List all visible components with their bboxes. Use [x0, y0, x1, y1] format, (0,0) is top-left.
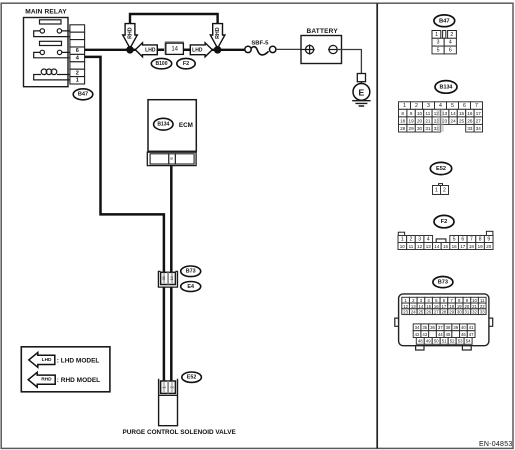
- RHD model arrow marker (right): [210, 24, 225, 49]
- svg-text:20: 20: [465, 304, 470, 309]
- pinout oval B73: [433, 277, 453, 288]
- svg-text:25: 25: [419, 310, 424, 315]
- wire ECM pin down to inline connector: [170, 166, 173, 272]
- svg-text:17: 17: [442, 304, 447, 309]
- relay contact points switch 1: [40, 29, 62, 33]
- svg-text:27: 27: [476, 119, 482, 124]
- svg-text:20: 20: [417, 119, 423, 124]
- svg-text:1: 1: [401, 236, 404, 242]
- svg-text:3: 3: [418, 236, 421, 242]
- svg-text:BATTERY: BATTERY: [307, 28, 339, 35]
- svg-text:26: 26: [426, 310, 431, 315]
- svg-text:B134: B134: [440, 84, 453, 90]
- svg-text:8: 8: [479, 236, 482, 242]
- svg-text:9: 9: [410, 111, 413, 116]
- svg-text:54: 54: [466, 339, 471, 344]
- svg-text:3: 3: [427, 103, 430, 109]
- connector oval B47 (main relay): [73, 89, 93, 100]
- svg-text:18: 18: [400, 119, 406, 124]
- pinout oval B47: [434, 15, 455, 27]
- svg-text:PURGE CONTROL SOLENOID VALVE: PURGE CONTROL SOLENOID VALVE: [122, 429, 236, 436]
- svg-text:: RHD MODEL: : RHD MODEL: [57, 377, 100, 384]
- svg-text:25: 25: [459, 119, 465, 124]
- svg-text:B100: B100: [156, 61, 168, 67]
- svg-text:9: 9: [487, 236, 490, 242]
- battery negative terminal: [328, 45, 338, 53]
- svg-text:2: 2: [410, 236, 413, 242]
- svg-text:18: 18: [449, 304, 454, 309]
- pinout oval F2: [434, 215, 454, 227]
- inline connector B73/E4 shell: [158, 271, 177, 287]
- svg-text:LHD: LHD: [42, 357, 52, 363]
- svg-text:43: 43: [422, 332, 427, 337]
- relay coil: [37, 69, 70, 75]
- svg-text:48: 48: [418, 339, 423, 344]
- svg-text:10: 10: [400, 244, 406, 249]
- svg-text:19: 19: [409, 119, 415, 124]
- inline connector B73/E4 body: [161, 272, 176, 284]
- svg-text:32: 32: [472, 310, 477, 315]
- svg-text:5: 5: [451, 103, 454, 109]
- wire main relay pin 6 to fuse (power feed): [85, 49, 245, 51]
- svg-text:5: 5: [437, 47, 440, 53]
- svg-text:1: 1: [403, 103, 406, 109]
- svg-text:22: 22: [480, 304, 485, 309]
- svg-text:14: 14: [171, 47, 178, 53]
- svg-text:26: 26: [467, 119, 473, 124]
- svg-text:2: 2: [450, 32, 453, 38]
- connector oval B100: [151, 58, 171, 68]
- wire fuse box 14 to LHD arrow: [183, 49, 191, 51]
- svg-text:ECM: ECM: [179, 122, 193, 129]
- svg-text:31: 31: [465, 310, 470, 315]
- svg-text:RHD: RHD: [41, 377, 52, 383]
- svg-text:2: 2: [443, 187, 446, 193]
- junction node (left): [126, 46, 134, 54]
- svg-text:34: 34: [476, 126, 482, 131]
- svg-text:41: 41: [469, 325, 474, 330]
- svg-text:49: 49: [426, 339, 431, 344]
- svg-text:23: 23: [403, 310, 408, 315]
- pinout oval B134: [435, 81, 457, 94]
- svg-text:33: 33: [480, 310, 485, 315]
- fuse No.14 box: [165, 42, 184, 54]
- connector oval E4: [181, 282, 201, 292]
- svg-text:24: 24: [451, 119, 457, 124]
- svg-text:RHD: RHD: [128, 27, 134, 39]
- fusible link SBF-5 symbol: [245, 46, 276, 55]
- svg-text:1: 1: [76, 78, 79, 84]
- svg-text:53: 53: [458, 339, 463, 344]
- legend box: [21, 347, 110, 392]
- svg-text:38: 38: [446, 325, 451, 330]
- svg-text:47: 47: [469, 332, 474, 337]
- svg-text:MAIN RELAY: MAIN RELAY: [25, 9, 67, 16]
- svg-text:19: 19: [478, 244, 484, 249]
- svg-text:15: 15: [426, 304, 431, 309]
- svg-text:B73: B73: [438, 280, 448, 286]
- ground point E circle: [353, 82, 370, 101]
- svg-text:2: 2: [76, 70, 79, 76]
- pinout grid E52: [433, 184, 449, 195]
- svg-text:19: 19: [457, 304, 462, 309]
- wire LHD arrow to fuse box 14: [157, 49, 166, 51]
- battery label: [307, 28, 339, 35]
- svg-text:21: 21: [425, 119, 431, 124]
- wire inline connector down to solenoid (left): [163, 287, 166, 381]
- ECM connector pin strip: [147, 152, 196, 165]
- figure number EN-04853: [479, 441, 513, 448]
- relay contact bar 2: [40, 41, 62, 45]
- svg-text:12: 12: [403, 304, 408, 309]
- svg-text:35: 35: [422, 325, 427, 330]
- svg-text:E52: E52: [187, 375, 197, 381]
- svg-text:11: 11: [480, 298, 485, 303]
- svg-text:16: 16: [452, 244, 458, 249]
- svg-text:50: 50: [434, 339, 439, 344]
- solenoid valve body: [159, 394, 178, 396]
- svg-text:20: 20: [486, 244, 492, 249]
- svg-text:6: 6: [463, 103, 466, 109]
- wire switch 2 to pins: [34, 52, 70, 57]
- svg-text:52: 52: [450, 339, 455, 344]
- svg-text:28: 28: [442, 310, 447, 315]
- svg-text:28: 28: [400, 126, 406, 131]
- ground connector block: [357, 74, 365, 82]
- svg-text:36: 36: [430, 325, 435, 330]
- connector oval B134 (ECM): [154, 118, 173, 130]
- svg-text:17: 17: [476, 111, 482, 116]
- relay contact bar 1: [40, 20, 62, 24]
- svg-text:24: 24: [411, 310, 416, 315]
- legend RHD arrow: [28, 372, 55, 387]
- ECM pin number: [169, 157, 174, 160]
- svg-text:F2: F2: [183, 61, 189, 67]
- svg-text:44: 44: [438, 332, 443, 337]
- svg-text:6: 6: [76, 48, 79, 54]
- svg-text:B47: B47: [439, 18, 450, 24]
- svg-text:45: 45: [446, 332, 451, 337]
- wire RHD bypass bridge: [130, 14, 218, 25]
- svg-text:: LHD MODEL: : LHD MODEL: [57, 357, 100, 364]
- svg-text:15: 15: [443, 244, 449, 249]
- svg-text:35: 35: [162, 276, 166, 280]
- svg-text:F2: F2: [441, 219, 448, 225]
- svg-text:30: 30: [457, 310, 462, 315]
- svg-text:51: 51: [442, 339, 447, 344]
- junction node (right): [214, 46, 222, 54]
- svg-text:18: 18: [469, 244, 475, 249]
- svg-text:29: 29: [409, 126, 415, 131]
- legend RHD text: [57, 377, 100, 384]
- svg-text:31: 31: [425, 126, 431, 131]
- svg-text:B134: B134: [157, 122, 169, 128]
- svg-text:RHD: RHD: [215, 27, 221, 39]
- svg-text:11: 11: [409, 244, 414, 249]
- svg-text:15: 15: [459, 111, 465, 116]
- main relay label: [25, 9, 67, 16]
- ground symbol: [352, 101, 370, 106]
- svg-text:11: 11: [426, 111, 431, 116]
- svg-text:13: 13: [411, 304, 416, 309]
- wire coil to pin 1: [34, 75, 70, 80]
- pinout grid B73 lower rows: [413, 324, 475, 344]
- svg-text:E: E: [359, 88, 365, 98]
- pinout grid B73 upper rows: [402, 297, 486, 314]
- svg-text:4: 4: [449, 40, 452, 46]
- svg-text:4: 4: [439, 103, 442, 109]
- svg-text:30: 30: [417, 126, 423, 131]
- wire inline connector down to solenoid (right): [170, 287, 173, 381]
- svg-text:LHD: LHD: [145, 47, 156, 53]
- svg-text:1: 1: [435, 32, 438, 38]
- svg-text:E4: E4: [187, 284, 194, 290]
- svg-text:6: 6: [449, 47, 452, 53]
- svg-text:14: 14: [434, 244, 440, 249]
- svg-text:13: 13: [426, 244, 432, 249]
- panel divider: [376, 3, 378, 448]
- pinout oval E52: [430, 162, 451, 174]
- svg-text:7: 7: [475, 103, 478, 109]
- solenoid connector pin numbers 1 2: [162, 385, 175, 388]
- svg-text:1: 1: [435, 187, 438, 193]
- LHD model arrow marker (left, points left): [135, 43, 157, 57]
- svg-text:8: 8: [401, 111, 404, 116]
- relay K1 MAIN RELAY box: [24, 18, 69, 87]
- relay contact points switch 2: [40, 50, 62, 54]
- pinout grid F2: [398, 231, 493, 249]
- svg-text:3: 3: [437, 40, 440, 46]
- svg-text:21: 21: [472, 304, 477, 309]
- svg-text:E52: E52: [436, 166, 446, 172]
- purge control solenoid valve label: [122, 429, 236, 436]
- ECM box: [148, 100, 196, 152]
- wire fuse to battery: [276, 48, 301, 50]
- legend LHD arrow: [29, 353, 55, 368]
- LHD model arrow marker (right, points right): [190, 43, 212, 57]
- RHD model arrow marker (left): [123, 24, 138, 49]
- legend LHD text: [57, 357, 100, 364]
- svg-text:27: 27: [434, 310, 439, 315]
- inline connector pin numbers: [162, 276, 174, 280]
- svg-text:39: 39: [453, 325, 458, 330]
- svg-text:29: 29: [449, 310, 454, 315]
- svg-text:SBF-5: SBF-5: [251, 40, 269, 46]
- svg-text:16: 16: [467, 111, 473, 116]
- svg-text:14: 14: [419, 304, 424, 309]
- svg-text:12: 12: [417, 244, 423, 249]
- wire battery negative to ground E: [337, 50, 361, 74]
- wire main relay pin 4 down to inline connector: [85, 57, 164, 272]
- svg-text:5: 5: [453, 236, 456, 242]
- svg-text:33: 33: [467, 126, 473, 131]
- battery box: [301, 36, 342, 64]
- pinout grid B47: [432, 31, 456, 54]
- svg-text:6: 6: [461, 236, 464, 242]
- svg-text:14: 14: [451, 111, 457, 116]
- relay connector pin strip B47 pins 6 4 2 1: [70, 25, 85, 84]
- svg-text:LHD: LHD: [192, 47, 203, 53]
- fusible link SBF-5 label: [251, 40, 269, 46]
- pinout connector B73 shell: [395, 294, 493, 350]
- svg-text:17: 17: [460, 244, 466, 249]
- svg-text:EN-04853: EN-04853: [479, 441, 513, 448]
- svg-text:34: 34: [415, 325, 420, 330]
- purge control solenoid valve connector E52: [159, 379, 178, 426]
- wire switch 1 to pins: [34, 31, 70, 37]
- svg-text:B73: B73: [186, 269, 196, 275]
- connector oval F2: [177, 58, 195, 68]
- battery positive terminal: [301, 44, 315, 54]
- svg-text:46: 46: [461, 332, 466, 337]
- svg-text:40: 40: [461, 325, 466, 330]
- svg-text:2: 2: [415, 103, 418, 109]
- connector oval E52 (solenoid): [182, 372, 202, 382]
- svg-text:10: 10: [417, 111, 423, 116]
- svg-text:B47: B47: [78, 92, 88, 98]
- ECM label: [179, 122, 193, 129]
- svg-text:14: 14: [170, 276, 174, 280]
- svg-text:7: 7: [470, 236, 473, 242]
- connector oval B73: [181, 266, 201, 277]
- svg-text:4: 4: [427, 236, 430, 242]
- pinout grid B134: [399, 102, 483, 132]
- svg-text:10: 10: [472, 298, 477, 303]
- svg-text:16: 16: [434, 304, 439, 309]
- svg-text:37: 37: [438, 325, 443, 330]
- svg-text:42: 42: [415, 332, 420, 337]
